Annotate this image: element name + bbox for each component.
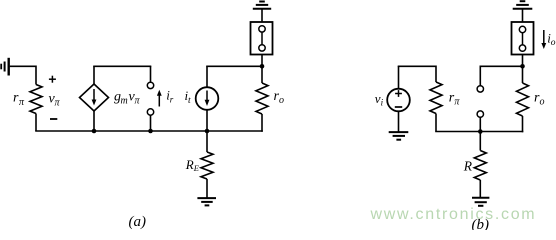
wire: top segment port to r_o (circuit b) (480, 65, 524, 67)
svg-text:r: r (170, 95, 174, 105)
wire: top ground to box (circuit b) (522, 9, 524, 22)
wire: r_o top lead (circuit b) (522, 66, 524, 83)
wire: bottom rail of circuit a (35, 130, 263, 132)
svg-text:www.cntronics.com: www.cntronics.com (370, 206, 537, 223)
svg-text:π: π (55, 98, 61, 109)
ground (top of circuit b, inverted) (513, 1, 533, 9)
label i_o (547, 30, 556, 48)
wire: port bottom lead (150, 115, 152, 131)
wire: v_i top lead (398, 66, 400, 88)
wire: port top lead (circuit b) (479, 66, 481, 85)
wire: top segment from i_t to r_o (206, 65, 263, 67)
label v_pi (49, 92, 61, 109)
dependent current source g_m*v_pi (diamond, circuit a) (80, 84, 109, 111)
svg-text:R: R (185, 157, 194, 172)
current source i_t (circle, circuit a) (196, 87, 219, 110)
svg-text:π: π (454, 97, 460, 108)
wire: box to r_o junction (circuit b) (522, 55, 524, 67)
wire: r_pi bottom lead (circuit b) (435, 114, 437, 132)
ground (below R, circuit b) (472, 198, 489, 206)
svg-text:o: o (279, 95, 284, 106)
terminal: port bottom circle (circuit a) (147, 109, 153, 115)
svg-text:π: π (19, 97, 25, 108)
wire: R bottom lead (circuit b) (479, 180, 481, 198)
wire: top ground to box (circuit a) (261, 9, 263, 22)
label r_pi (circuit a) (13, 91, 25, 109)
wire: R_E top lead (206, 131, 208, 152)
label r_o (circuit a) (274, 89, 285, 106)
resistor r_o (circuit b) (517, 83, 529, 116)
wire: i_t source top lead (206, 66, 208, 87)
wire: i_t source bottom lead (206, 110, 208, 131)
box: terminal pair box (circuit a) (251, 22, 273, 55)
wire: R_E bottom lead (206, 179, 208, 198)
label i_t (185, 88, 192, 106)
node: diamond bottom junction (92, 129, 97, 134)
wire: top segment from diamond to test port (93, 65, 151, 67)
wire: v_i bottom lead to ground (398, 111, 400, 132)
wire: r_o bottom lead (circuit b) (522, 116, 524, 132)
ground (top of circuit a, inverted) (253, 2, 271, 9)
svg-text:π: π (135, 96, 141, 107)
terminal: port bottom circle (circuit b) (477, 111, 483, 117)
svg-text:t: t (188, 96, 191, 106)
voltage source v_i (circle, circuit b) (387, 89, 410, 112)
terminal: port top circle (circuit b) (477, 86, 483, 92)
label r_pi (circuit b) (449, 91, 461, 108)
wire: r_o top lead (261, 66, 263, 83)
node: r_o top junction (260, 64, 265, 69)
wire: left ground to r_pi top corner (10, 66, 36, 84)
label r_o (circuit b) (534, 91, 545, 108)
svg-text:R: R (463, 159, 473, 174)
resistor R (circuit b) (474, 151, 486, 181)
label i_r (166, 88, 174, 105)
wire: diamond source bottom lead (93, 111, 95, 132)
resistor R_E (201, 152, 213, 179)
resistor r_pi (circuit a) (30, 85, 42, 114)
wire: diamond source top lead (93, 66, 95, 84)
svg-text:o: o (551, 38, 556, 48)
label v_i (375, 91, 384, 108)
arrow i_o (downward) (541, 30, 546, 49)
arrow i_r (upward) (157, 90, 162, 107)
svg-text:o: o (540, 97, 545, 108)
node: port bottom junction (circuit b) (478, 129, 483, 134)
svg-text:m: m (121, 96, 128, 107)
wire: port top lead (150, 66, 152, 82)
node: port bottom junction (148, 129, 153, 134)
node: r_o top junction (circuit b) (520, 64, 525, 69)
terminal: port top circle (circuit a) (147, 82, 153, 88)
svg-text:(a): (a) (129, 214, 147, 230)
ground (below R_E) (197, 198, 216, 205)
label R_E (185, 157, 200, 173)
wire: r_pi bottom lead (35, 114, 37, 132)
wire: bottom rail of circuit b (435, 131, 523, 133)
wire: box to r_o junction (circuit a) (261, 55, 263, 67)
wire: R top lead (circuit b) (479, 132, 481, 151)
node: i_t bottom junction (205, 129, 210, 134)
box: terminal pair box (circuit b) (512, 22, 534, 55)
resistor r_o (circuit a) (256, 83, 268, 114)
svg-text:E: E (193, 163, 200, 173)
ground (below v_i) (389, 132, 409, 140)
wire: r_o bottom lead (261, 114, 263, 132)
svg-text:i: i (381, 98, 384, 108)
wire: top segment v_i to r_pi (circuit b) (398, 66, 436, 82)
label - (v_pi polarity bottom) (50, 118, 57, 120)
ground (input, left side of circuit a) (1, 58, 9, 76)
label + (v_pi polarity top) (49, 76, 56, 83)
resistor r_pi (circuit b) (430, 82, 442, 114)
label g_m v_pi (114, 90, 141, 107)
wire: port bottom lead (circuit b) (479, 117, 481, 131)
